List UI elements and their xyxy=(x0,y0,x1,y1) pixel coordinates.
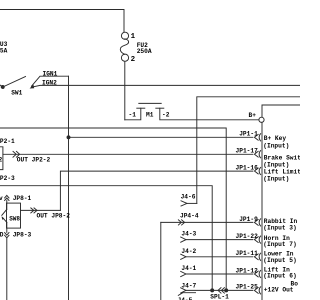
svg-text:JP2-1: JP2-1 xyxy=(0,138,15,145)
svg-text:(Input 5): (Input 5) xyxy=(263,257,296,264)
wire OUT JP8-2 from SW8 xyxy=(21,209,61,211)
svg-text:250A: 250A xyxy=(137,48,152,55)
wire B+ Key input JP1-1 xyxy=(69,136,253,138)
wire OUT JP2-2 to JP1-17 xyxy=(3,153,253,155)
svg-text:JP1-16: JP1-16 xyxy=(236,164,259,171)
svg-text:B+: B+ xyxy=(249,112,257,119)
connector pin JP1-16 xyxy=(254,168,258,174)
svg-text:1: 1 xyxy=(131,33,136,41)
svg-text:JP8-3: JP8-3 xyxy=(13,232,32,239)
connector pin JP1-25 xyxy=(254,288,258,294)
connector pin JP1-11 xyxy=(254,254,258,260)
svg-text:15A: 15A xyxy=(0,47,8,54)
svg-text:(Input): (Input) xyxy=(263,161,289,168)
svg-text:-2: -2 xyxy=(162,112,170,119)
wire FU2 to M1 xyxy=(124,62,126,120)
connector pin JP1-1 xyxy=(254,134,258,140)
connector pin JP1-22 xyxy=(254,237,258,243)
wire JP8-3 to bottom xyxy=(6,238,8,300)
svg-text:J4-2: J4-2 xyxy=(181,248,196,255)
node junction on IGN2 bus xyxy=(67,136,70,139)
wire OUT JP8-2 to JP1-16 xyxy=(60,171,252,210)
svg-text:2: 2 xyxy=(131,56,136,64)
node B+ xyxy=(259,117,264,122)
connector pin JP1-9 xyxy=(254,220,258,226)
connector J4-6 xyxy=(181,201,187,206)
svg-text:JP1-9: JP1-9 xyxy=(239,216,258,223)
wire vertical IGN2 bus xyxy=(68,76,70,300)
svg-text:J4-6: J4-6 xyxy=(181,194,196,201)
svg-text:GND: GND xyxy=(0,232,4,239)
connector J4 box xyxy=(160,222,162,300)
contactor M1 xyxy=(125,108,141,120)
connector pin JP1-17 xyxy=(254,151,258,157)
svg-text:SPL-1: SPL-1 xyxy=(210,294,229,300)
svg-text:JP4-4: JP4-4 xyxy=(180,213,199,220)
svg-text:J4-3: J4-3 xyxy=(181,231,196,238)
wire J4-2 to JP1-11 xyxy=(181,254,186,259)
svg-text:2: 2 xyxy=(0,157,3,164)
switch SW8 box xyxy=(7,203,21,228)
svg-text:SW1: SW1 xyxy=(11,90,22,97)
switch SW1 xyxy=(0,85,3,87)
svg-text:J4-1: J4-1 xyxy=(181,265,196,272)
svg-text:JP2-3: JP2-3 xyxy=(0,175,15,182)
controller board box xyxy=(262,105,300,117)
svg-text:JP1-25: JP1-25 xyxy=(236,284,259,291)
wire J4-1 to JP1-12 xyxy=(181,271,186,276)
wire battery top horizontal xyxy=(0,10,124,33)
wire lower bus to splice SPL-1 xyxy=(0,186,212,289)
svg-text:J4-7: J4-7 xyxy=(181,282,196,289)
wire J4-5 stub xyxy=(178,293,195,296)
svg-text:OUT JP8-2: OUT JP8-2 xyxy=(37,213,71,220)
svg-text:(Input): (Input) xyxy=(263,175,289,182)
svg-text:JP1-22: JP1-22 xyxy=(236,233,259,240)
svg-text:JP1-17: JP1-17 xyxy=(236,148,259,155)
svg-text:M1: M1 xyxy=(146,112,154,119)
svg-text:(Input 3): (Input 3) xyxy=(263,224,296,231)
svg-text:Brake Switch: Brake Switch xyxy=(264,154,300,161)
connector JP2 box xyxy=(0,147,3,170)
wire L-corner upper right to J4-6 xyxy=(197,97,300,204)
svg-text:OUT JP2-2: OUT JP2-2 xyxy=(17,157,51,164)
svg-text:(Input): (Input) xyxy=(263,142,289,149)
switch SW8 contact symbol xyxy=(6,203,8,209)
svg-text:IGN1: IGN1 xyxy=(43,70,58,77)
wire J4-7 to JP1-25 xyxy=(181,288,186,293)
wire JP2-1 to splice xyxy=(0,128,226,289)
fuse FU2 xyxy=(121,32,128,39)
svg-text:(Input 7): (Input 7) xyxy=(263,241,296,248)
svg-text:+12V Out: +12V Out xyxy=(264,286,294,293)
svg-text:Bo: Bo xyxy=(291,281,299,288)
svg-text:SW8: SW8 xyxy=(9,216,20,223)
wire J4-3 to JP1-22 xyxy=(181,237,186,242)
connector pin JP1-12 xyxy=(254,271,258,277)
svg-text:JP8-1: JP8-1 xyxy=(13,195,32,202)
wire JP4-4 to JP1-9 xyxy=(161,221,253,223)
svg-text:IGN2: IGN2 xyxy=(42,80,57,87)
connector arrow JP8-3 xyxy=(5,233,9,236)
net flag IGN1 xyxy=(32,76,69,86)
connector arrow JP8-1 xyxy=(5,195,9,198)
svg-text:-1: -1 xyxy=(129,112,137,119)
svg-text:JP1-12: JP1-12 xyxy=(236,267,259,274)
wire SW8 to JP8-3 xyxy=(6,228,8,232)
svg-text:JP1-11: JP1-11 xyxy=(236,250,259,257)
net flag IGN2 / wire to right edge xyxy=(32,85,301,87)
svg-text:B+ Key: B+ Key xyxy=(264,135,287,142)
splice arrows on JP2-2 wire xyxy=(13,151,16,157)
svg-text:+5v: +5v xyxy=(0,195,3,202)
svg-text:(Input 6): (Input 6) xyxy=(263,273,296,280)
splice SPL-1 xyxy=(211,289,214,292)
svg-text:JP1-1: JP1-1 xyxy=(239,131,258,138)
